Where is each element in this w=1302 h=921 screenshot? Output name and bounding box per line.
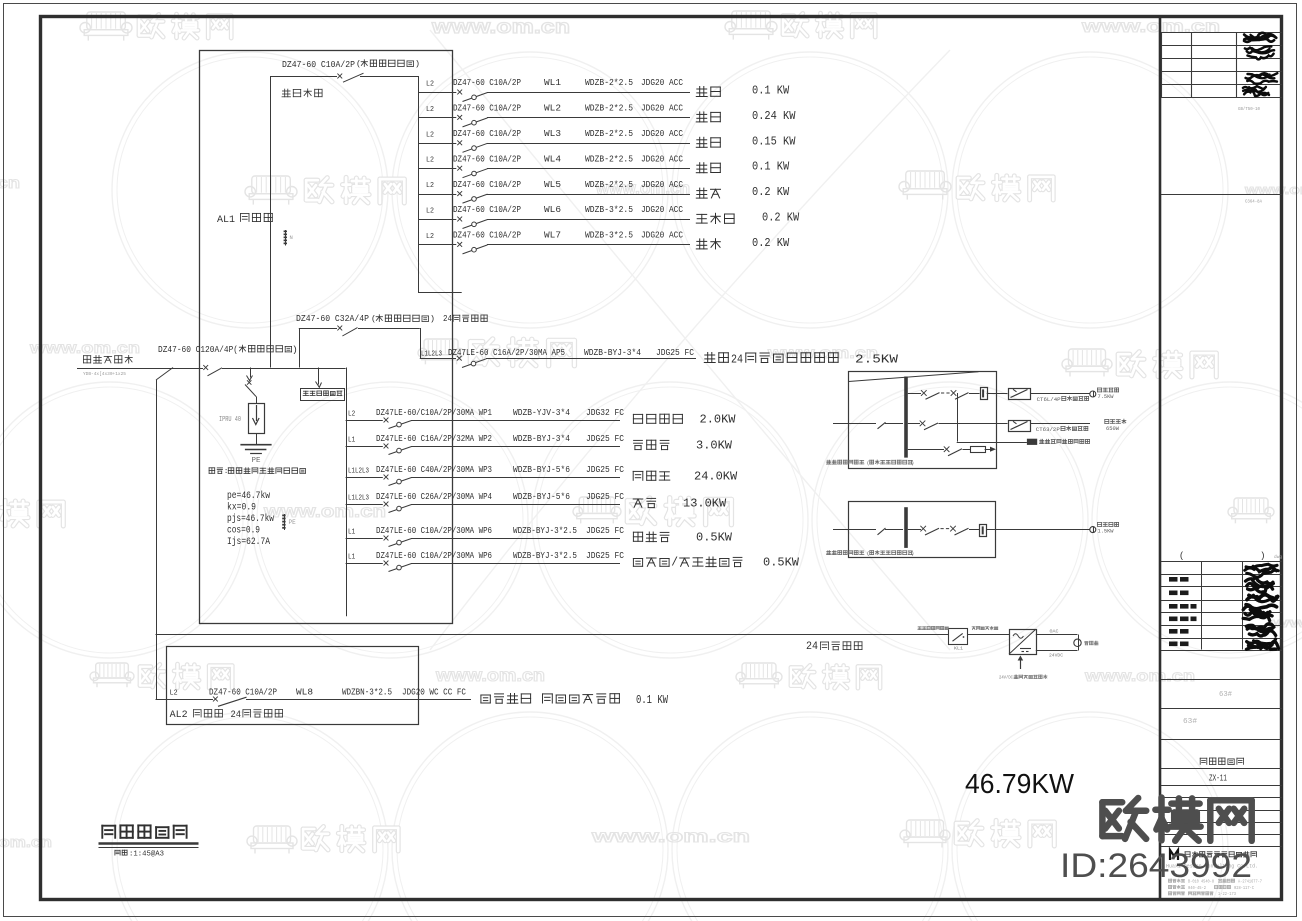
branch circuit WP6 wire: [346, 563, 620, 565]
svg-text:24: 24: [806, 641, 818, 653]
svg-text:GB/T50-10: GB/T50-10: [1238, 107, 1260, 112]
svg-text:ZX-11: ZX-11: [1209, 774, 1227, 784]
labels DZ47LE-60 C10A/2P/30MA WP6 WDZB-BYJ-3*2.5 JDG25 FC: [376, 525, 624, 536]
wire PSU to lamp top: [1036, 635, 1079, 640]
lighting group box 照明线路: [270, 76, 419, 368]
one-key cutoff switch drop: [316, 368, 322, 388]
svg-text:KL1: KL1: [954, 647, 963, 652]
branch circuit WP2 wire: [346, 446, 620, 448]
label 厨房设备控制柜(须带一键断电功能) cabinet1: [827, 460, 915, 467]
breaker DZ47-60 C10A/2P for WL1: [457, 90, 487, 102]
svg-text:24V/DC: 24V/DC: [999, 675, 1013, 681]
svg-text:): ): [1260, 551, 1265, 561]
label 24小时电路: [806, 641, 862, 653]
load label 照明 0.1 KW: [696, 85, 789, 98]
svg-text:DZ47LE-60 C10A/2P/30MA WP6: DZ47LE-60 C10A/2P/30MA WP6: [376, 525, 492, 536]
isolator box CT6L/4P: [1009, 389, 1031, 400]
breaker DZ47-60 C10A/2P for WL5: [457, 191, 487, 203]
svg-text:www.om.cn: www.om.cn: [590, 826, 750, 846]
phase label L2 for WL6: [426, 208, 434, 216]
wire controller to PSU: [967, 634, 1009, 636]
label 采用辅助触点: [972, 626, 998, 629]
svg-text:AL2: AL2: [170, 709, 188, 721]
svg-text:N: N: [290, 234, 293, 241]
cabinet1 contactor element A: [981, 388, 988, 400]
svg-text::: :: [224, 468, 228, 476]
svg-text:www.om.cn: www.om.cn: [1084, 668, 1195, 685]
labels for WL7: DZ47-60 C10A/2P WL7 WDZB-3*2.5 JDG20 ACC: [453, 230, 683, 241]
isolator box CT63/2P: [1009, 421, 1031, 432]
svg-text:): ): [911, 551, 914, 557]
total power 46.79KW: [965, 768, 1075, 799]
labels DZ47LE-60 C26A/2P/30MA WP4 WDZB-BYJ-5*6 JDG25 FC: [376, 491, 624, 502]
label AL2 配电箱 24小时电路: [170, 709, 283, 721]
svg-text:WDZB-2*2.5: WDZB-2*2.5: [585, 153, 633, 164]
cable spec text: [83, 371, 126, 377]
branch circuit WL6 wire: [418, 219, 690, 221]
cabinet2 main bus bar: [904, 507, 908, 548]
approval table signatures: [1243, 564, 1278, 649]
svg-text:040-45-2: 040-45-2: [1188, 887, 1206, 891]
title block approval table: [1161, 561, 1282, 651]
label 一键断电控制器: [918, 627, 948, 630]
svg-text:WDZB-BYJ-3*2.5: WDZB-BYJ-3*2.5: [513, 525, 577, 536]
svg-text:1.5KW: 1.5KW: [1098, 529, 1115, 535]
SPD branch drop wire: [247, 368, 253, 381]
phase label L1L2L3: [348, 468, 369, 476]
label DZ47-60 C10A/2P (带漏电保护器): [282, 59, 420, 70]
svg-text:WDZB-BYJ-3*4: WDZB-BYJ-3*4: [584, 347, 641, 358]
label 油烟排风 7.5KW: [1098, 388, 1119, 400]
svg-text:): ): [430, 314, 435, 324]
svg-text:JDG25 FC: JDG25 FC: [586, 491, 624, 502]
svg-text:pjs=46.7kw: pjs=46.7kw: [227, 513, 274, 525]
branch circuit WL5 wire: [418, 194, 690, 196]
breaker DZ47-60 C10A/2P for WL8: [213, 697, 247, 707]
svg-text:JDG25 FC: JDG25 FC: [586, 550, 624, 561]
panel AL1 enclosure box: [200, 51, 453, 624]
sheet size 63 upper: [1219, 691, 1232, 699]
svg-text:0.2 KW: 0.2 KW: [752, 237, 789, 250]
incoming feeder wire: [77, 368, 203, 370]
label 24V/DC导轨式开关电源: [999, 675, 1047, 681]
svg-text:L2: L2: [426, 182, 434, 190]
cabinet1 branch C wire 449: [908, 446, 970, 455]
svg-text:): ): [415, 59, 420, 69]
title block line y679: [1161, 679, 1282, 681]
company english line: [1166, 864, 1258, 870]
motor symbol exhaust fan: [1090, 391, 1096, 397]
svg-text::1:45@A3: :1:45@A3: [129, 850, 164, 858]
load label 保温饭桶 2.0KW: [633, 414, 735, 427]
svg-text:OAC: OAC: [1050, 629, 1059, 635]
label CT6L/4P隔离开关箱: [1037, 396, 1089, 403]
svg-text:L1: L1: [348, 529, 356, 537]
title block signature table top: [1161, 32, 1282, 98]
breaker DZ47-60 C10A/2P for WL2: [457, 115, 487, 127]
svg-text:CT63/2P: CT63/2P: [1036, 427, 1060, 433]
title block line y770: [1161, 768, 1282, 770]
svg-text:JDG25 FC: JDG25 FC: [586, 464, 624, 475]
svg-text:63#: 63#: [1183, 718, 1197, 726]
branch circuit WL4 wire: [418, 168, 690, 170]
svg-text:WDZB-BYJ-5*6: WDZB-BYJ-5*6: [513, 491, 570, 502]
AC/DC switch-mode PSU box: [1009, 629, 1037, 654]
svg-text:24: 24: [231, 709, 242, 721]
neutral bar N in AL1: [284, 230, 293, 246]
phase label L2 for WL3: [426, 131, 434, 139]
sheet size 63 lower: [1183, 718, 1197, 726]
svg-text:L2: L2: [426, 106, 434, 114]
labels DZ47LE-60 C10A/2P/30MA WP6 WDZB-BYJ-3*2.5 JDG25 FC: [376, 550, 624, 561]
breaker DZ47LE-60 C10A/2P/30MA WP6: [384, 561, 412, 572]
breaker DZ47-60 C10A/2P for WL4: [457, 166, 487, 178]
label AL1 配电箱: [217, 213, 272, 226]
note 备注: [209, 468, 305, 476]
label 油烟送风: [1098, 522, 1119, 534]
svg-text:13.0KW: 13.0KW: [683, 498, 726, 511]
breaker DZ47LE-60 C16A/2P/30MA AP5: [457, 356, 487, 368]
svg-text:L2: L2: [426, 233, 434, 241]
kitchen control cabinet 1 box: [849, 372, 997, 469]
svg-text:0.24 KW: 0.24 KW: [752, 110, 795, 123]
svg-text:0.5KW: 0.5KW: [696, 532, 732, 545]
svg-text:24.0KW: 24.0KW: [694, 471, 737, 484]
svg-text:L1L2L3: L1L2L3: [348, 495, 369, 503]
cabinet1 branch A wire 393: [908, 390, 980, 399]
svg-text:DZ47-60 C10A/2P: DZ47-60 C10A/2P: [453, 77, 521, 88]
branch circuit WL7 wire: [418, 244, 690, 246]
svg-text:DZ47LE-60 C10A/2P/30MA WP6: DZ47LE-60 C10A/2P/30MA WP6: [376, 550, 492, 561]
title block line y739: [1161, 739, 1282, 741]
label 照明线路: [282, 89, 322, 97]
sheet name 配电系统图: [1200, 758, 1243, 764]
labels WL8 row: [170, 687, 467, 698]
labels for WL2: DZ47-60 C10A/2P WL2 WDZB-2*2.5 JDG20 ACC: [453, 103, 683, 114]
branch circuit WP6 wire: [346, 538, 620, 540]
svg-text:L2: L2: [426, 157, 434, 165]
svg-text:(: (: [867, 551, 870, 557]
svg-text:www.om.cn: www.om.cn: [29, 340, 140, 357]
svg-text:24: 24: [443, 313, 452, 324]
cabinet1 main bus bar: [904, 377, 908, 458]
svg-text:JDG20 ACC: JDG20 ACC: [641, 153, 683, 164]
svg-text:WDZB-2*2.5: WDZB-2*2.5: [585, 179, 633, 190]
branch circuit WP4 wire: [346, 504, 620, 506]
svg-text:0.5KW: 0.5KW: [763, 557, 799, 570]
svg-text:WL4: WL4: [544, 153, 561, 164]
title block divider line y194: [1161, 107, 1282, 205]
svg-text:pe=46.7kw: pe=46.7kw: [227, 490, 270, 502]
cabinet1 branch A outgoing wire: [987, 393, 1008, 395]
svg-text:WDZB-3*2.5: WDZB-3*2.5: [585, 204, 633, 215]
cabinet2 contactor element: [980, 525, 987, 537]
svg-text:DZ47LE-60 C26A/2P/30MA WP4: DZ47LE-60 C26A/2P/30MA WP4: [376, 491, 492, 502]
svg-text:WDZB-2*2.5: WDZB-2*2.5: [585, 128, 633, 139]
load label 门头 0.2 KW: [696, 186, 789, 199]
load label 灯带 0.2 KW: [696, 237, 789, 250]
load label 炸炉 13.0KW: [633, 498, 726, 511]
phase label L2 for WL2: [426, 106, 434, 114]
svg-text:L1: L1: [348, 437, 356, 445]
PSU pointer arrow: [1018, 656, 1024, 670]
title block small rows: [1161, 786, 1282, 847]
svg-text:WDZB-3*2.5: WDZB-3*2.5: [585, 230, 633, 241]
panel AL2 enclosure box: [167, 647, 419, 725]
labels for WL5: DZ47-60 C10A/2P WL5 WDZB-2*2.5 JDG20 ACC: [453, 179, 683, 190]
svg-text:DZ47-60 C120A/4P(: DZ47-60 C120A/4P(: [158, 344, 238, 355]
breaker DZ47-60 C32A/4P 24h: [337, 326, 357, 336]
branch circuit WP1 wire: [346, 420, 620, 422]
svg-text:C364-8A: C364-8A: [1245, 201, 1262, 205]
load label 风帘机 0.5KW: [633, 532, 732, 545]
labels for WL1: DZ47-60 C10A/2P WL1 WDZB-2*2.5 JDG20 ACC: [453, 77, 683, 88]
svg-text:PE: PE: [252, 457, 261, 465]
ground PE: [240, 433, 271, 465]
scale note 比例:1:45@A3: [115, 850, 164, 858]
label 厨房操作间的控制箱: [1040, 439, 1090, 443]
svg-text:DZ47LE-60 C16A/2P/32MA WP2: DZ47LE-60 C16A/2P/32MA WP2: [376, 433, 492, 444]
svg-text:L1: L1: [348, 554, 356, 562]
svg-text:DZ47-60 C10A/2P: DZ47-60 C10A/2P: [453, 103, 521, 114]
box 一键断电开关: [301, 389, 345, 401]
label CT63/2P隔离开关箱: [1036, 426, 1088, 433]
svg-text:0.1 KW: 0.1 KW: [752, 85, 789, 98]
load label 发光字 0.2 KW: [696, 212, 799, 225]
control link wire to kitchen control box: [957, 393, 1038, 445]
title block line y707: [1161, 708, 1282, 710]
label DZ47-60 C120A/4P(带漏电保护器): [158, 344, 298, 355]
labels for WL3: DZ47-60 C10A/2P WL3 WDZB-2*2.5 JDG20 ACC: [453, 128, 683, 139]
phase label L1: [348, 554, 356, 562]
cabinet2 entry switch: [878, 528, 904, 535]
svg-text:DZ47-60 C10A/2P: DZ47-60 C10A/2P: [453, 230, 521, 241]
phase label L2: [348, 411, 355, 419]
labels DZ47LE-60 C16A/2P/32MA WP2 WDZB-BYJ-3*4 JDG25 FC: [376, 433, 624, 444]
branch AP5 wire: [420, 358, 696, 360]
phase label L1: [348, 437, 356, 445]
branch C arrow out: [985, 447, 996, 452]
svg-text:WDZB-BYJ-5*6: WDZB-BYJ-5*6: [513, 464, 570, 475]
title underline: [99, 844, 199, 848]
svg-text:Ijs=62.7A: Ijs=62.7A: [227, 536, 270, 548]
svg-text:0.1 KW: 0.1 KW: [636, 694, 668, 707]
phase label L2 for WL7: [426, 233, 434, 241]
svg-text:PE: PE: [289, 519, 297, 526]
phase label L1: [348, 529, 356, 537]
breaker DZ47-60 C10A/2P for WL6: [457, 217, 487, 229]
breaker DZ47LE-60/C10A/2P/30MA WP1: [384, 418, 412, 429]
svg-text:(: (: [867, 461, 870, 467]
svg-text:WL5: WL5: [544, 179, 561, 190]
stage parentheses row: [1179, 551, 1282, 561]
incoming supply label 接商场电源: [84, 355, 133, 363]
labels for WL6: DZ47-60 C10A/2P WL6 WDZB-3*2.5 JDG20 ACC: [453, 204, 683, 215]
cabinet2 branch wire: [908, 526, 979, 535]
load label 照明 0.24 KW: [696, 110, 795, 123]
svg-text:0.15 KW: 0.15 KW: [752, 135, 795, 148]
cabinet1 entry switch: [878, 422, 904, 429]
phase label L1L2L3: [348, 495, 369, 503]
svg-text:WDZBN-3*2.5: WDZBN-3*2.5: [342, 687, 392, 698]
one-key cutoff controller box: [949, 629, 968, 645]
svg-text:DZ47-60 C10A/2P: DZ47-60 C10A/2P: [453, 204, 521, 215]
svg-text:24VDC: 24VDC: [1049, 653, 1063, 659]
branch circuit WL8 wire: [156, 699, 472, 701]
svg-text:DZ47-60 C10A/2P: DZ47-60 C10A/2P: [453, 128, 521, 139]
svg-text:DZ47-60 C10A/2P: DZ47-60 C10A/2P: [453, 153, 521, 164]
svg-text:AL1: AL1: [217, 214, 235, 226]
24h circuit box: [299, 328, 421, 368]
breaker DZ47LE-60 C26A/2P/30MA WP4: [384, 502, 412, 513]
lighting main breaker DZ47-60 C10A/2P: [337, 73, 363, 82]
breaker DZ47-60 C10A/2P for WL3: [457, 140, 487, 152]
svg-text:2.0KW: 2.0KW: [700, 414, 736, 427]
svg-text:kx=0.9: kx=0.9: [227, 502, 256, 514]
svg-text:www.om.cn: www.om.cn: [0, 835, 52, 851]
svg-text:DZ47-60 C10A/2P: DZ47-60 C10A/2P: [453, 179, 521, 190]
label 指示灯: [1085, 641, 1098, 645]
labels for WL4: DZ47-60 C10A/2P WL4 WDZB-2*2.5 JDG20 ACC: [453, 153, 683, 164]
watermark logo 欧模网 dark: [1102, 798, 1251, 841]
svg-text:JDG20 ACC: JDG20 ACC: [641, 77, 683, 88]
cabinet2 incoming wire: [833, 529, 876, 531]
svg-text:dwg: dwg: [1274, 554, 1282, 560]
svg-text:(: (: [356, 59, 361, 69]
svg-text:JDG20 ACC: JDG20 ACC: [641, 230, 683, 241]
svg-text:L2: L2: [426, 208, 434, 216]
svg-text:): ): [292, 344, 298, 355]
branch circuit WL2 wire: [418, 117, 690, 119]
labels DZ47LE-60/C10A/2P/30MA WP1 WDZB-YJV-3*4 JDG32 FC: [376, 407, 624, 418]
main breaker DZ47-60 C120A/4P: [203, 365, 222, 376]
svg-text:L2: L2: [426, 81, 434, 89]
svg-text:(: (: [1179, 551, 1184, 561]
branch circuit WL1 wire: [418, 92, 690, 94]
svg-text:): ): [911, 461, 914, 467]
calc text pe kx pjs cos Ijs: [227, 490, 274, 548]
svg-text:IPRU 40: IPRU 40: [219, 416, 241, 424]
phase label L2 for WL5: [426, 182, 434, 190]
wire to purifier: [1030, 423, 1090, 425]
svg-text:ID:2643992: ID:2643992: [1060, 847, 1252, 885]
lighting bus stub: [418, 292, 462, 294]
svg-text:JDG32 FC: JDG32 FC: [586, 407, 624, 418]
svg-text:cos=0.9: cos=0.9: [227, 526, 260, 537]
24h circuit long wire: [156, 634, 949, 636]
svg-text:0.2 KW: 0.2 KW: [752, 186, 789, 199]
svg-text:DZ47LE-60 C16A/2P/30MA AP5: DZ47LE-60 C16A/2P/30MA AP5: [448, 347, 565, 358]
labels DZ47LE-60 C40A/2P/30MA WP3 WDZB-BYJ-5*6 JDG25 FC: [376, 464, 624, 475]
svg-text:0.1 KW: 0.1 KW: [752, 161, 789, 174]
breaker DZ47LE-60 C40A/2P/30MA WP3: [384, 475, 412, 486]
label 厨房设备控制柜(须带一键断电功能) cabinet2: [827, 551, 915, 558]
cabinet1 branch B wire 423: [908, 421, 1008, 430]
labels AP5: [421, 347, 694, 358]
load 冰箱24小时不断电设备 2.5KW: [704, 353, 898, 367]
svg-text:DZ47LE-60/C10A/2P/30MA WP1: DZ47LE-60/C10A/2P/30MA WP1: [376, 407, 492, 418]
svg-text:WL6: WL6: [544, 204, 561, 215]
load label 收银台/出票打印机 0.5KW: [633, 556, 799, 570]
label DZ47-60 C32A/4P (带漏电保护器)24小时电路: [296, 313, 487, 324]
svg-text:/: /: [671, 556, 678, 570]
svg-text:63#: 63#: [1219, 691, 1232, 699]
svg-text:JDG20 ACC: JDG20 ACC: [641, 128, 683, 139]
title block divider: [1159, 16, 1162, 900]
cabinet1 incoming wire: [833, 423, 876, 425]
svg-text:7.5KW: 7.5KW: [1098, 394, 1115, 400]
label KL1: [954, 647, 963, 652]
tap to AL2 with isolator: [156, 368, 173, 700]
svg-text:www.om.cn: www.om.cn: [435, 665, 545, 685]
label 油烟净化 650W: [1105, 419, 1126, 432]
svg-text:DZ47LE-60 C40A/2P/30MA WP3: DZ47LE-60 C40A/2P/30MA WP3: [376, 464, 492, 475]
main bus wire after breaker: [222, 368, 346, 370]
svg-text:WDZB-BYJ-3*4: WDZB-BYJ-3*4: [513, 433, 570, 444]
svg-text:JDG20 ACC: JDG20 ACC: [641, 204, 683, 215]
svg-text:WL3: WL3: [544, 128, 561, 139]
PE bar symbol: [282, 514, 296, 530]
svg-text:L2: L2: [348, 411, 355, 419]
kitchen control cabinet 2 box: [849, 502, 996, 558]
label IPRU 40: [219, 416, 241, 424]
svg-text:2.5KW: 2.5KW: [855, 354, 898, 367]
svg-text:1-22-173: 1-22-173: [1218, 893, 1236, 897]
svg-text:L2: L2: [170, 690, 178, 698]
breaker DZ47LE-60 C16A/2P/32MA WP2: [384, 444, 412, 455]
svg-text:JDG20 ACC: JDG20 ACC: [641, 179, 683, 190]
svg-text:WL2: WL2: [544, 103, 561, 114]
svg-text:WDZB-BYJ-3*2.5: WDZB-BYJ-3*2.5: [513, 550, 577, 561]
svg-text:DZ47-60 C10A/2P: DZ47-60 C10A/2P: [209, 687, 277, 698]
company logo and name: [1170, 850, 1256, 860]
svg-text:3.0KW: 3.0KW: [696, 440, 732, 453]
svg-text:L2: L2: [426, 131, 434, 139]
svg-text:WDZB-2*2.5: WDZB-2*2.5: [585, 103, 633, 114]
svg-text:0.2 KW: 0.2 KW: [762, 212, 799, 225]
sheet number ZX-11: [1209, 774, 1227, 784]
svg-text:WDZB-2*2.5: WDZB-2*2.5: [585, 77, 633, 88]
svg-text:028-117-C: 028-117-C: [1234, 887, 1254, 891]
branch circuit WL3 wire: [418, 143, 690, 145]
svg-text:JDG25 FC: JDG25 FC: [586, 525, 624, 536]
approval table left labels: [1169, 577, 1197, 646]
cabinet2 outgoing wire to supply fan: [986, 529, 1090, 531]
watermark ID:2643992: [1060, 847, 1252, 885]
motor symbol supply fan: [1090, 527, 1096, 533]
branch circuit WP3 wire: [346, 477, 620, 479]
surge protector IPRU 40: [249, 404, 265, 434]
svg-text:CT6L/4P: CT6L/4P: [1037, 397, 1061, 403]
svg-text:YDB-4x[4x30+1x25: YDB-4x[4x30+1x25: [83, 371, 126, 377]
svg-text:JDG20 ACC: JDG20 ACC: [641, 103, 683, 114]
svg-text:JDG25 FC: JDG25 FC: [586, 433, 624, 444]
breaker DZ47-60 C10A/2P for WL7: [457, 242, 487, 254]
signature marks top table: [1243, 33, 1277, 96]
wire PSU to lamp bottom 24VDC: [1036, 646, 1079, 658]
phase label L2 for WL1: [426, 81, 434, 89]
load label 应急照明、安全疏散指示 0.1 KW: [481, 694, 668, 708]
svg-text:46.79KW: 46.79KW: [965, 768, 1075, 799]
svg-text:L1L2L3: L1L2L3: [421, 351, 442, 359]
svg-text:24: 24: [731, 354, 743, 367]
load label 蒸饭柜 24.0KW: [633, 471, 737, 484]
load label 照明 0.1 KW: [696, 161, 789, 174]
svg-text:(: (: [371, 314, 376, 324]
load label 烫菜炉 3.0KW: [634, 440, 732, 453]
svg-text:www.om.cn: www.om.cn: [431, 16, 570, 38]
svg-text:WDZB-YJV-3*4: WDZB-YJV-3*4: [513, 407, 570, 418]
